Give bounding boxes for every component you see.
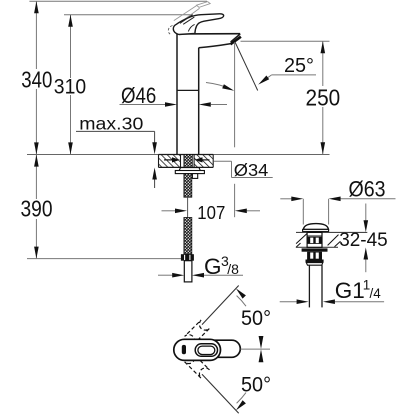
svg-text:/8: /8 (227, 261, 239, 277)
counter hole edges (180, 155, 182, 168)
svg-text:G: G (204, 254, 222, 279)
hose nut (181, 254, 194, 261)
extension line, 340 level (29, 0, 207, 2)
svg-text:Ø63: Ø63 (349, 176, 386, 201)
svg-text:Ø34: Ø34 (234, 160, 269, 180)
cartridge dome (180, 30, 195, 34)
dimension line 310 (70, 15, 72, 78)
drain transition (306, 260, 324, 263)
dimension 32-45 (365, 204, 367, 225)
dimension 107 (162, 210, 177, 212)
spout cut edge (231, 34, 241, 42)
spout top edge (177, 33, 240, 35)
plan view base outline (174, 339, 221, 360)
handle swivel ghost upper (dashed) (185, 320, 210, 345)
spout aerator dark band (230, 37, 241, 45)
angle arc stubs lower (237, 393, 246, 404)
dimension G3/8 (158, 274, 174, 276)
threaded shank in counter hole (184, 155, 192, 168)
svg-text:107: 107 (197, 203, 225, 223)
drain cap (303, 224, 328, 230)
svg-text:390: 390 (21, 196, 53, 222)
hose break centerline (187, 197, 189, 217)
supply hose upper (184, 174, 192, 198)
plan view spout outline (206, 340, 240, 357)
25 deg reference vertical line (234, 42, 236, 147)
swivel line lower (202, 374, 239, 413)
knob sketch arcs (168, 26, 172, 35)
svg-text:max.30: max.30 (79, 113, 143, 133)
dimension line 340 (35, 1, 37, 69)
drain taper (306, 263, 323, 266)
supply hose lower (184, 218, 192, 255)
angle arc stubs upper (237, 296, 246, 307)
plan view screw mark (182, 345, 186, 354)
dimension G1 1/4 (280, 301, 298, 303)
drain tailpipe (308, 265, 310, 307)
svg-text:G1: G1 (335, 278, 365, 303)
svg-text:50°: 50° (241, 306, 271, 330)
countertop section (159, 155, 214, 168)
25 deg slanted line (235, 42, 258, 91)
drain hex nut (307, 252, 322, 260)
Ø34 arrows in section (164, 159, 172, 161)
svg-text:250: 250 (306, 85, 341, 111)
mounting washer (175, 171, 204, 174)
drain body in counter (307, 232, 322, 247)
extension line spout outlet level (241, 40, 330, 42)
plan view lever inner (198, 346, 215, 354)
raised lever ghost (174, 2, 210, 24)
svg-text:50°: 50° (241, 373, 271, 397)
dimension line 390 (35, 155, 37, 199)
Ø34 boxed label with leader (214, 160, 232, 162)
dimension line 250 (322, 41, 324, 86)
svg-text:25°: 25° (284, 55, 314, 77)
mounting flange (179, 168, 200, 171)
faucet body (177, 34, 241, 155)
swivel line upper (202, 286, 239, 325)
svg-text:/4: /4 (370, 286, 382, 301)
plan centerline (241, 348, 271, 350)
extension line, hose end level (27, 258, 181, 260)
side connection step (192, 174, 197, 179)
Ø63 dimension (302, 199, 304, 225)
handle swivel ghost lower (dashed) (185, 353, 210, 378)
drain flange nut (302, 248, 328, 251)
body joint line (177, 89, 199, 91)
spout underside (199, 44, 231, 48)
G3/8 thread tube (184, 261, 192, 282)
drain countertop section (296, 231, 367, 233)
svg-text:310: 310 (54, 74, 86, 98)
plan view lever outer (195, 344, 217, 357)
extension line, 310 level (64, 14, 193, 16)
lever detail lines (180, 15, 195, 32)
svg-text:32-45: 32-45 (339, 230, 388, 251)
svg-text:340: 340 (21, 67, 52, 93)
lever handle (173, 14, 223, 35)
